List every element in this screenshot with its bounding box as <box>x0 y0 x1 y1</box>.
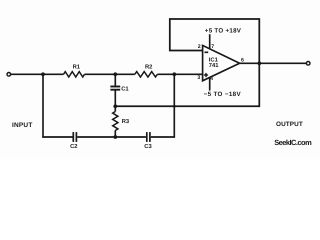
node J1 (junction dot) <box>41 72 45 76</box>
svg-text:R2: R2 <box>145 63 152 70</box>
output terminal <box>306 62 310 66</box>
wire J2 to R2 <box>115 73 135 75</box>
svg-text:4: 4 <box>210 76 213 82</box>
op-amp minus sign (inverting input) <box>205 51 209 53</box>
resistor R1 <box>64 72 85 77</box>
svg-text:R1: R1 <box>73 64 81 70</box>
input terminal <box>7 73 11 77</box>
wire feedback loop: pin2 left, top rail, right vertical, lower horizontal to J3 <box>115 19 259 106</box>
wire C1 to node J3 <box>114 90 116 106</box>
wire R1 to node J2 <box>85 73 116 75</box>
node J3 (junction dot C1/R3/feedback) <box>113 104 117 108</box>
node R3/bottom rail (junction dot) <box>113 135 117 139</box>
capacitor C2 <box>73 132 76 142</box>
wire J1 to R1 <box>43 73 64 75</box>
svg-text:SeekIC.com: SeekIC.com <box>274 138 312 147</box>
svg-text:C3: C3 <box>144 143 152 150</box>
svg-text:2: 2 <box>198 44 201 50</box>
wire node A to op-amp pin 3 <box>174 73 202 75</box>
wire input terminal to node J1 <box>11 73 43 75</box>
op-amp plus sign (non-inverting input) <box>204 73 208 77</box>
pin 7 stub (V+ supply) <box>209 34 211 49</box>
svg-text:741: 741 <box>209 63 219 69</box>
svg-text:C2: C2 <box>70 143 77 150</box>
svg-text:7: 7 <box>211 44 214 50</box>
node J2 (junction dot) <box>113 72 117 76</box>
wire bottom rail middle segment (C2 to C3) <box>77 136 146 138</box>
svg-text:INPUT: INPUT <box>12 122 33 129</box>
svg-text:−5 TO −18V: −5 TO −18V <box>204 91 242 98</box>
node output (junction dot with feedback) <box>257 61 261 65</box>
wire R2 to node A <box>157 73 174 75</box>
wire op-amp output to output terminal <box>240 62 307 64</box>
svg-text:OUTPUT: OUTPUT <box>276 121 303 128</box>
node A vertical / lower feedback crossing (small dot) <box>173 105 176 108</box>
wire bottom rail right segment (C3 to node A vertical) <box>151 136 175 138</box>
wire J1 down to bottom rail <box>42 74 44 137</box>
wire J2 down to C1 <box>114 74 116 86</box>
op-amp U1 triangle <box>203 45 240 80</box>
resistor R3 <box>113 112 118 131</box>
wire bottom rail left segment (J1 to C2) <box>42 136 72 138</box>
node A (junction dot at R2 / op-amp + input) <box>172 72 176 76</box>
svg-text:+5 TO +18V: +5 TO +18V <box>205 28 242 35</box>
wire R3 to bottom rail <box>114 131 116 138</box>
wire node A down to bottom rail <box>173 74 175 137</box>
svg-text:C1: C1 <box>121 85 129 92</box>
resistor R2 <box>135 72 158 77</box>
pin 4 stub (V- supply) <box>209 78 211 91</box>
capacitor C3 <box>147 132 150 142</box>
wire J3 to R3 <box>114 106 116 111</box>
capacitor C1 <box>110 87 120 90</box>
svg-text:3: 3 <box>197 75 200 81</box>
svg-text:R3: R3 <box>122 118 130 125</box>
